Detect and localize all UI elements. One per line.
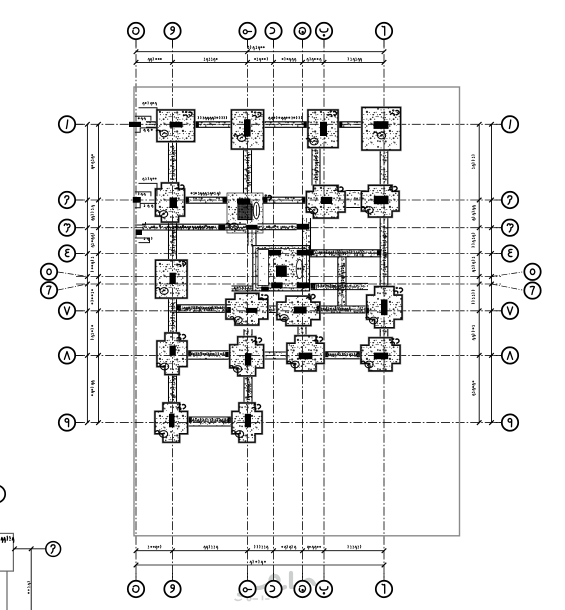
right bubbles 5 and 6 with leaders — [492, 272, 523, 277]
beam F-E67 to F-C67 (row 7) — [268, 306, 277, 313]
stair shaft — [258, 250, 269, 286]
tie beams row 8 — [187, 351, 230, 359]
right dimension lines — [479, 124, 491, 422]
footing F-B1 — [307, 109, 338, 148]
left grid bubbles — [75, 123, 83, 125]
watermark — [239, 573, 314, 595]
left bubbles 5 and 6 with leaders — [58, 272, 88, 277]
beam junction stubs — [195, 122, 199, 127]
tie beams row 2 — [185, 197, 228, 203]
beam raft to F-E67 (row 6) — [232, 286, 253, 291]
bottom overall dimension — [136, 564, 384, 566]
tie beams row 1 — [146, 122, 157, 128]
footing F-A1 — [361, 107, 401, 151]
footing F-W78 — [156, 332, 187, 375]
right grid bubbles — [494, 123, 502, 125]
central raft — [253, 246, 310, 291]
core ellipse label — [253, 202, 259, 219]
plan border — [134, 87, 460, 536]
adjacent detail drawing (cropped at left edge) — [0, 485, 5, 502]
footing F-B2 — [306, 185, 346, 219]
footing F-C8 — [286, 335, 324, 372]
footing F-E8 — [229, 336, 264, 376]
footing F-W1 — [156, 109, 195, 142]
footing F-W2 — [155, 182, 185, 222]
footing F-W9 — [154, 402, 188, 443]
columns — [129, 122, 141, 127]
left dimension lines — [87, 124, 98, 422]
beam text labels on beams — [313, 251, 377, 255]
beam axis lines — [252, 230, 342, 312]
footing F-E9 — [231, 402, 262, 443]
footing F-W56 — [155, 260, 188, 299]
footing labels — [183, 111, 192, 117]
footing F-A2 — [361, 185, 400, 218]
top overall dimension — [136, 51, 384, 53]
tie beams row 7 — [177, 305, 232, 313]
tie beam row 9 — [188, 417, 233, 426]
top grid bubbles — [135, 39, 137, 47]
footing F-E1 — [231, 109, 264, 149]
footing F-E67 — [225, 293, 268, 326]
tie beam row 6 center-right — [311, 283, 368, 289]
footing F-A8 — [360, 337, 400, 372]
footing F-A57 — [366, 286, 403, 329]
tie beams row 3 — [142, 224, 246, 230]
bottom grid bubbles — [135, 573, 137, 581]
grid axes — [136, 40, 384, 581]
core cluster (shear walls rows 2-3) — [227, 193, 263, 233]
bottom segment dimension — [136, 550, 384, 552]
footing F-C67 — [276, 296, 320, 327]
top segment dimension — [136, 61, 384, 63]
core top column bar — [237, 199, 251, 204]
vertical tie beams — [169, 142, 177, 184]
hatched shear core — [238, 204, 252, 220]
edge strip footings on axis H — [143, 102, 157, 106]
tie beam row 4 center-right — [310, 250, 382, 257]
